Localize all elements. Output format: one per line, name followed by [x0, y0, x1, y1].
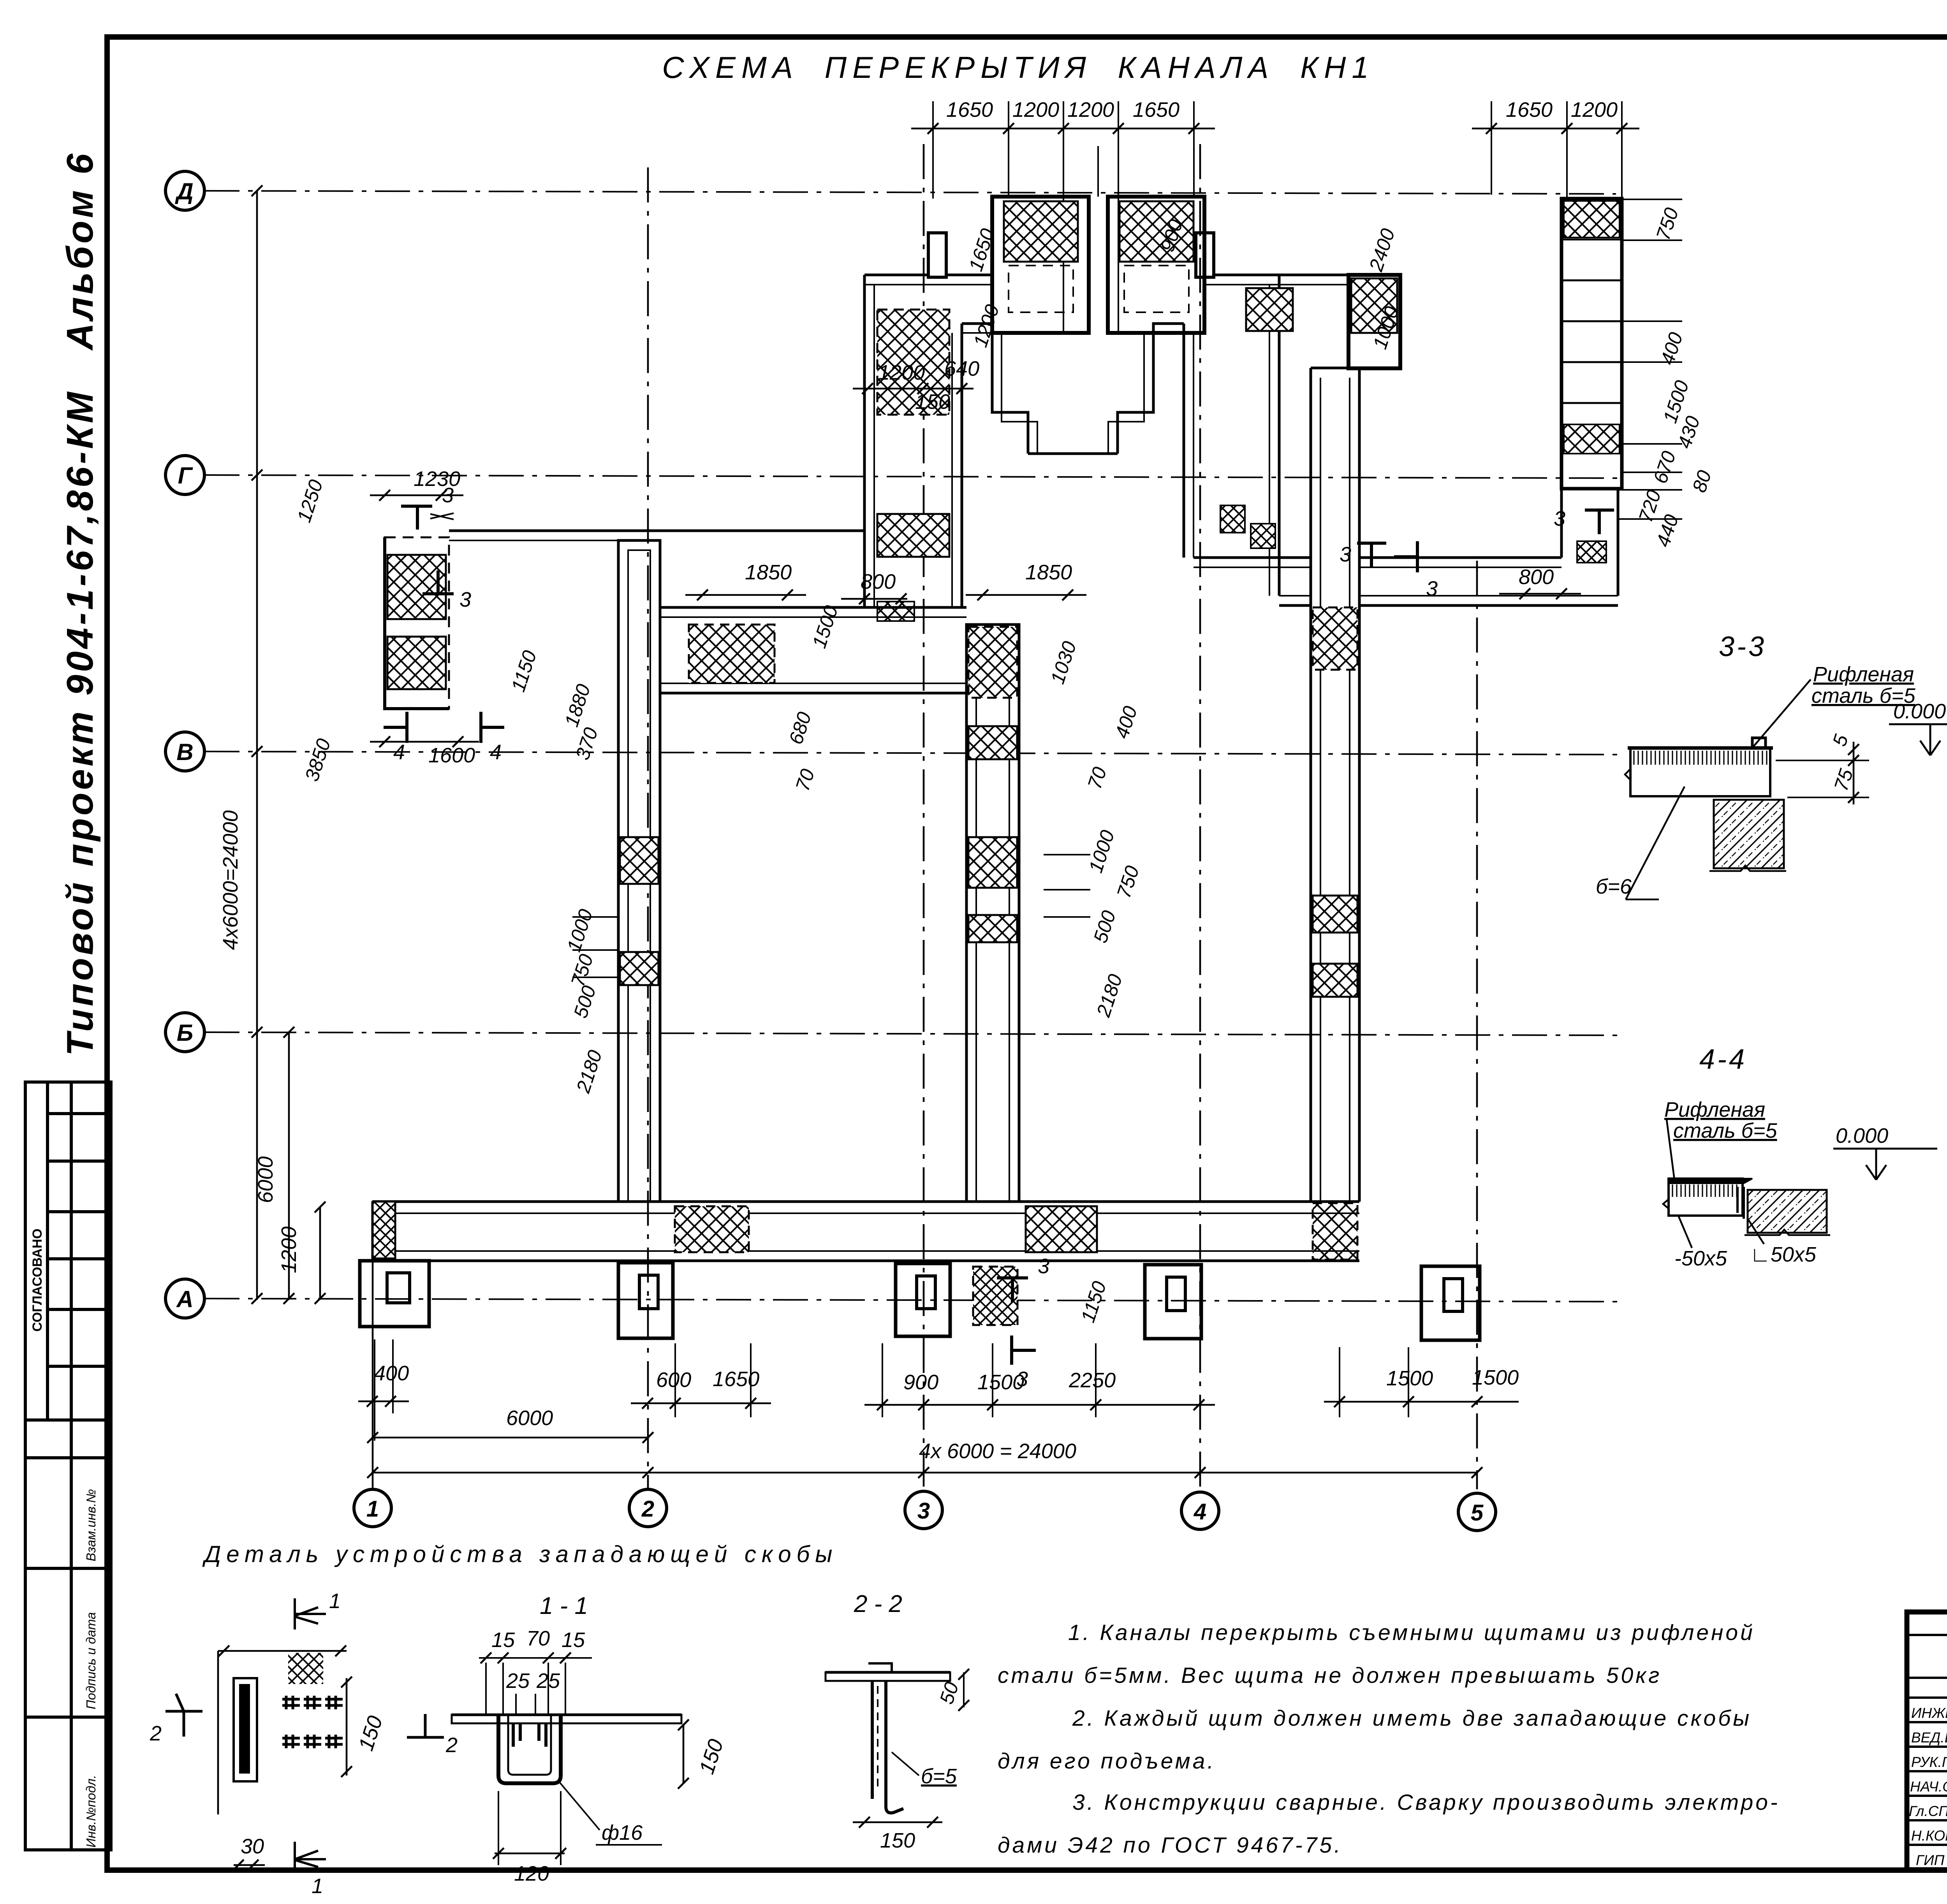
svg-text:0.000: 0.000	[1836, 1124, 1888, 1147]
signature rows labels	[1909, 1705, 1947, 1868]
right column panels	[1313, 607, 1357, 670]
svg-text:ИНЖЕНЕР: ИНЖЕНЕР	[1911, 1705, 1947, 1721]
axis circle G	[165, 456, 204, 494]
svg-text:3: 3	[442, 484, 454, 507]
2-2 vertical element	[872, 1681, 903, 1813]
svg-text:3: 3	[1038, 1255, 1049, 1278]
left leg hatch panel 3	[877, 602, 914, 621]
svg-text:6000: 6000	[506, 1406, 553, 1430]
svg-text:640: 640	[944, 357, 979, 380]
svg-text:1650: 1650	[1506, 98, 1553, 121]
flag 3 bottom centre	[997, 1278, 1028, 1302]
svg-text:2250: 2250	[1069, 1369, 1116, 1392]
right leg small hatches	[1220, 505, 1245, 533]
flag 2 left	[165, 1694, 202, 1737]
left leg hatch panel 2	[877, 514, 949, 557]
svg-text:1850: 1850	[1025, 561, 1072, 584]
horseshoe inner step right	[1118, 324, 1184, 454]
svg-text:В: В	[176, 739, 193, 765]
dim 120	[495, 1853, 565, 1855]
flag 3 at left block top	[401, 506, 432, 530]
plate 1-1	[452, 1715, 681, 1723]
right leg inner wall	[1183, 324, 1185, 558]
axis3 channel	[966, 625, 1019, 1202]
top right dim chain 1650 1200	[1472, 128, 1639, 130]
svg-text:НАЧ.ОСП-1: НАЧ.ОСП-1	[1910, 1779, 1947, 1795]
flag 3 left block lower	[422, 570, 454, 594]
plate 4-4	[1669, 1179, 1743, 1216]
svg-text:0.000: 0.000	[1893, 700, 1946, 723]
svg-text:3: 3	[1426, 577, 1438, 600]
svg-text:3: 3	[1340, 543, 1351, 566]
svg-text:1200: 1200	[1012, 98, 1059, 121]
top-left outer wall pair	[864, 274, 928, 276]
dims 5 75	[1853, 742, 1855, 804]
svg-text:Д: Д	[174, 178, 193, 204]
horseshoe right tower block	[1108, 197, 1204, 333]
svg-text:1: 1	[329, 1589, 341, 1613]
svg-text:1500: 1500	[1386, 1367, 1433, 1390]
svg-text:Б: Б	[177, 1020, 193, 1046]
flag 3 right of plan	[1357, 543, 1386, 567]
left vertical dim line with axis ticks	[256, 191, 258, 1300]
svg-text:800: 800	[1519, 565, 1554, 589]
footing 3	[896, 1263, 950, 1336]
vertical axis 4	[1199, 144, 1201, 1489]
svg-text:-50х5: -50х5	[1674, 1247, 1727, 1270]
horseshoe left tower block	[992, 197, 1089, 333]
steel plate box 3-3	[1630, 748, 1770, 796]
bottom channel left hatch	[373, 1202, 395, 1258]
svg-text:∟50х5: ∟50х5	[1750, 1243, 1817, 1266]
hatch patch	[288, 1653, 323, 1684]
svg-text:1200: 1200	[878, 361, 925, 384]
svg-text:3: 3	[459, 588, 471, 611]
right column lower walls	[1560, 489, 1563, 558]
sidebar upper table	[25, 1082, 111, 1420]
svg-text:4х 6000 = 24000: 4х 6000 = 24000	[919, 1439, 1076, 1463]
plan view bracket	[218, 1650, 347, 1652]
axis circle V	[165, 732, 204, 771]
right side rotated chain 750 400 1500 430 670 80 720 440	[1622, 199, 1682, 200]
right top column hatch	[1351, 278, 1397, 333]
angle piece	[1738, 1187, 1744, 1219]
svg-text:6000: 6000	[254, 1156, 277, 1203]
footing 2	[618, 1263, 673, 1338]
svg-text:3. Конструкции сварные. Свар: 3. Конструкции сварные. Сварку производи…	[1072, 1790, 1780, 1815]
svg-text:1850: 1850	[745, 561, 792, 584]
svg-text:ф16: ф16	[602, 1821, 643, 1844]
svg-text:СХЕМА ПЕРЕКРЫТИЯ КАНАЛА КН1: СХЕМА ПЕРЕКРЫТИЯ КАНАЛА КН1	[662, 50, 1375, 84]
C channel profile	[498, 1715, 561, 1783]
svg-text:2. Каждый щит должен иметь: 2. Каждый щит должен иметь две западающи…	[1072, 1706, 1752, 1731]
svg-text:б=5: б=5	[921, 1765, 957, 1788]
left block hatch panel 1	[387, 555, 446, 619]
svg-text:1. Каналы перекрыть съемными: 1. Каналы перекрыть съемными щитами из р…	[1068, 1620, 1755, 1645]
svg-text:15: 15	[491, 1628, 515, 1652]
axis line A	[204, 1299, 1620, 1302]
left block bold edges	[385, 537, 449, 709]
axis circle A	[165, 1279, 204, 1318]
left leg outer wall	[863, 275, 866, 609]
right stub	[1196, 233, 1214, 277]
svg-text:стали б=5мм. Вес щита не до: стали б=5мм. Вес щита не должен превышат…	[998, 1663, 1662, 1688]
dim 150 2-2	[853, 1821, 942, 1823]
right column step	[1311, 367, 1348, 370]
svg-text:15: 15	[562, 1628, 585, 1652]
left leg inner wall	[951, 333, 953, 609]
axis line B	[204, 1032, 1620, 1035]
svg-text:Гл.СПЕЦ.ТО: Гл.СПЕЦ.ТО	[1909, 1803, 1947, 1819]
bracket bar dark	[234, 1678, 257, 1781]
svg-text:4-4: 4-4	[1699, 1044, 1747, 1075]
bottom axis circle 5	[1458, 1493, 1496, 1531]
hatched pad below channel	[973, 1267, 1018, 1325]
axis line V	[204, 751, 1620, 755]
vertical axis 1	[372, 1207, 374, 1489]
svg-text:150: 150	[915, 390, 950, 414]
dim 150 skoba	[346, 1678, 348, 1776]
left mid rotated chain 1000 750 500 2180	[572, 916, 618, 918]
svg-text:70: 70	[526, 1627, 550, 1650]
bottom channel panel 3-4	[1026, 1206, 1097, 1252]
top-right outer wall pair	[1214, 274, 1348, 276]
right top column block	[1348, 275, 1400, 368]
left block hatch panel 2	[387, 637, 446, 689]
svg-text:30: 30	[241, 1835, 264, 1858]
svg-text:Взам.инв.№: Взам.инв.№	[84, 1489, 98, 1561]
svg-text:400: 400	[374, 1362, 409, 1385]
axis2 channel	[618, 540, 660, 1202]
svg-text:Рифленая: Рифленая	[1664, 1098, 1765, 1121]
svg-text:РУК.ГР: РУК.ГР	[1911, 1754, 1947, 1770]
svg-text:5: 5	[1471, 1500, 1484, 1526]
sidebar lower table	[25, 1420, 111, 1850]
svg-text:СОГЛАСОВАНО: СОГЛАСОВАНО	[30, 1228, 45, 1332]
left stub	[928, 233, 946, 277]
left tower hatch panel	[1004, 201, 1078, 262]
left leg big hatch panel	[877, 310, 949, 415]
svg-text:1: 1	[312, 1874, 323, 1898]
top horizontal channel to right column	[1359, 556, 1561, 559]
section flags KN1	[384, 506, 1614, 1365]
flag 2 right	[407, 1714, 444, 1737]
footing 1	[360, 1261, 429, 1327]
right top column squares	[1561, 199, 1622, 489]
footing 4	[1145, 1265, 1201, 1339]
vertical axis 3	[923, 144, 925, 1489]
skoba hook	[1752, 738, 1766, 748]
right connector channel	[1194, 556, 1311, 559]
bottom axis circle 3	[905, 1491, 942, 1529]
svg-text:2: 2	[641, 1496, 654, 1522]
connector channel axis2-axis3	[660, 606, 966, 609]
svg-text:для его подъема.: для его подъема.	[998, 1749, 1216, 1774]
svg-text:ГИП: ГИП	[1916, 1852, 1945, 1868]
bottom channel	[373, 1200, 1359, 1203]
flag 1 bottom	[295, 1842, 326, 1873]
concrete block 3-3	[1714, 800, 1784, 868]
axis circle B	[165, 1013, 204, 1052]
svg-text:1600: 1600	[428, 744, 475, 767]
right leg hatch panel	[1246, 288, 1293, 331]
svg-text:800: 800	[861, 570, 896, 593]
top dim chain 1650 1200 1200 1650	[911, 128, 1215, 130]
vertical axis 5	[1476, 561, 1478, 1489]
svg-text:900: 900	[903, 1371, 938, 1394]
svg-text:ВЕД.ИНЖ: ВЕД.ИНЖ	[1911, 1730, 1947, 1746]
svg-text:1650: 1650	[946, 98, 993, 121]
vertical axis 2	[647, 167, 649, 1489]
svg-text:Рифленая: Рифленая	[1813, 663, 1914, 686]
axis circle D	[165, 171, 204, 210]
axis2 channel panels	[620, 837, 658, 884]
flag 3 right column	[1585, 510, 1614, 534]
dim 150 1-1	[683, 1725, 685, 1783]
svg-text:1650: 1650	[713, 1367, 759, 1391]
bottom axis circle 2	[629, 1489, 667, 1527]
svg-text:600: 600	[656, 1368, 691, 1392]
svg-text:дами Э42 по ГОСТ 9467-75.: дами Э42 по ГОСТ 9467-75.	[998, 1833, 1343, 1858]
concrete block 4-4	[1748, 1190, 1827, 1233]
svg-text:120: 120	[514, 1862, 549, 1885]
right column channel (axis4)	[1310, 368, 1312, 1202]
horseshoe inner step left	[962, 324, 1028, 454]
svg-text:1 - 1: 1 - 1	[540, 1593, 588, 1619]
flag 4 pair below left block	[384, 712, 407, 743]
svg-text:4х6000=24000: 4х6000=24000	[219, 810, 242, 950]
axis3 channel top panel	[968, 627, 1017, 698]
svg-text:2: 2	[150, 1722, 162, 1745]
svg-text:2: 2	[445, 1733, 458, 1757]
right tower hatch panel	[1120, 201, 1194, 262]
dim 50	[963, 1672, 965, 1707]
svg-text:Подпись и дата: Подпись и дата	[84, 1612, 98, 1709]
svg-text:3: 3	[1016, 1367, 1028, 1391]
svg-text:4: 4	[393, 741, 405, 764]
svg-text:1500: 1500	[1472, 1366, 1519, 1389]
svg-text:1650: 1650	[1133, 98, 1179, 121]
2-2 plate	[826, 1672, 950, 1681]
centre line between towers	[1097, 146, 1099, 197]
section flag 1 top	[295, 1598, 326, 1629]
svg-text:1200: 1200	[1571, 98, 1618, 121]
bottom channel panel 2-3	[675, 1206, 749, 1252]
svg-text:Типовой проект 904-1-67,86-КМ: Типовой проект 904-1-67,86-КМ Альбом 6	[59, 151, 101, 1056]
svg-text:1: 1	[366, 1496, 379, 1522]
footing 5	[1421, 1266, 1480, 1340]
svg-text:б=6: б=6	[1596, 875, 1632, 898]
axis line D	[204, 191, 1616, 194]
svg-text:1200: 1200	[1067, 98, 1114, 121]
left block dashed outline	[385, 537, 449, 709]
svg-text:сталь б=5: сталь б=5	[1673, 1119, 1778, 1142]
svg-text:Н.КОНТР: Н.КОНТР	[1911, 1828, 1947, 1844]
bolt marks row1	[282, 1696, 343, 1748]
svg-text:4: 4	[490, 741, 502, 764]
svg-text:150: 150	[880, 1829, 915, 1852]
svg-text:4: 4	[1194, 1499, 1206, 1524]
svg-text:Г: Г	[178, 463, 194, 489]
connector panel	[689, 625, 775, 683]
axis line G	[204, 475, 1620, 478]
svg-text:А: А	[176, 1286, 193, 1312]
svg-text:3: 3	[917, 1498, 930, 1524]
left block to leg wall	[449, 530, 864, 532]
svg-text:2 - 2: 2 - 2	[854, 1591, 902, 1617]
svg-text:3: 3	[1554, 507, 1565, 530]
svg-text:25: 25	[506, 1669, 530, 1693]
svg-text:Деталь устройства западающей с: Деталь устройства западающей скобы	[202, 1541, 838, 1567]
right mid rotated chain 1000 750 500 2180	[1044, 854, 1090, 855]
horseshoe slot bottom	[1028, 452, 1118, 455]
svg-text:Инв.№подл.: Инв.№подл.	[84, 1775, 98, 1848]
bottom axis circle 4	[1181, 1492, 1219, 1529]
right leg outer wall	[1269, 285, 1270, 596]
svg-text:3-3: 3-3	[1719, 631, 1766, 662]
bottom axis circle 1	[354, 1489, 391, 1527]
